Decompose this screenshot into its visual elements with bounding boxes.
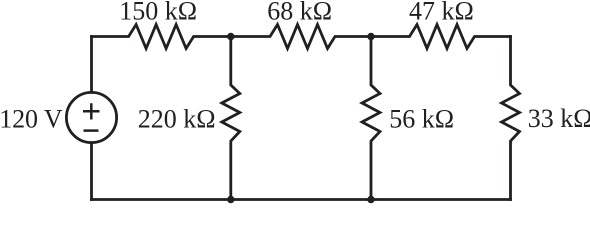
svg-text:220 kΩ: 220 kΩ xyxy=(138,105,216,134)
voltage source 120 V circle xyxy=(66,92,116,142)
wire: bottom rail xyxy=(92,198,511,201)
wire: left branch above source xyxy=(90,37,93,93)
resistor 56k vertical zigzag with wires (node B branch) xyxy=(362,37,380,200)
svg-text:47 kΩ: 47 kΩ xyxy=(409,0,474,26)
plus sign of source xyxy=(83,103,100,119)
resistor 220k vertical zigzag with wires (node A branch) xyxy=(222,37,240,200)
svg-text:68 kΩ: 68 kΩ xyxy=(267,0,332,26)
resistor 33k vertical zigzag with wires (right branch) xyxy=(502,37,520,200)
node dot A bottom xyxy=(227,196,234,203)
svg-text:56 kΩ: 56 kΩ xyxy=(389,105,454,134)
node dot B bottom xyxy=(367,196,374,203)
resistor 47k zigzag with wires to top-right corner xyxy=(371,25,511,49)
node dot A top xyxy=(227,33,234,40)
wire: left branch below source xyxy=(90,143,93,200)
svg-text:120 V: 120 V xyxy=(0,104,63,133)
node dot B top xyxy=(367,33,374,40)
minus sign of source xyxy=(84,129,99,132)
svg-text:150 kΩ: 150 kΩ xyxy=(119,0,197,26)
svg-text:33 kΩ: 33 kΩ xyxy=(528,104,590,133)
wire: top-left segment + resistor 150k zigzag + wire to node A xyxy=(92,25,231,49)
resistor 68k zigzag with wires to node B xyxy=(231,25,371,49)
